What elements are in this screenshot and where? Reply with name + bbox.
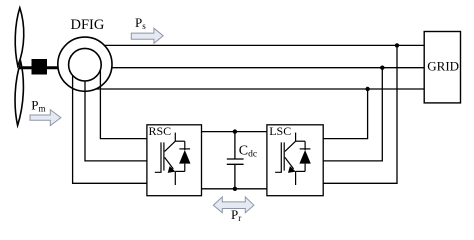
DC link bottom rail [202,188,267,190]
node dot bottom rail [233,187,237,191]
stator wire middle [112,67,424,69]
IGBT U1 (inside RSC) [155,133,191,185]
DFIG outer circle [58,37,112,91]
stator wire bottom [96,88,424,90]
turbine shaft [19,66,58,69]
rotor wire right [100,70,146,139]
node dot top rail [233,129,237,133]
arrow Pr (double) [213,197,254,213]
node dot bottom line [365,87,369,91]
grid-side wire middle line to LSC [323,68,382,161]
gearbox [32,59,48,75]
turbine lower blade [15,62,23,126]
node dot middle line [380,66,384,70]
node dot top line [395,43,399,47]
rotor wire middle [85,81,147,161]
svg-text:GRID: GRID [427,59,459,74]
rotor wire left [73,76,147,184]
IGBT U2 (inside LSC) [275,133,311,185]
svg-text:RSC: RSC [149,124,172,138]
turbine upper blade [15,8,24,66]
RSC box [147,125,202,196]
capacitor Cdc [227,132,244,189]
DFIG inner circle [69,48,102,81]
svg-text:DFIG: DFIG [71,17,105,33]
arrow Pm [30,110,61,126]
grid-side wire bottom line to LSC [323,89,367,139]
arrow Ps [131,28,163,43]
svg-text:LSC: LSC [269,124,291,138]
LSC box [267,125,323,196]
GRID box [424,32,460,103]
grid-side wire top line to LSC [323,45,397,183]
DC link top rail [202,131,267,133]
stator wire top [105,44,425,46]
